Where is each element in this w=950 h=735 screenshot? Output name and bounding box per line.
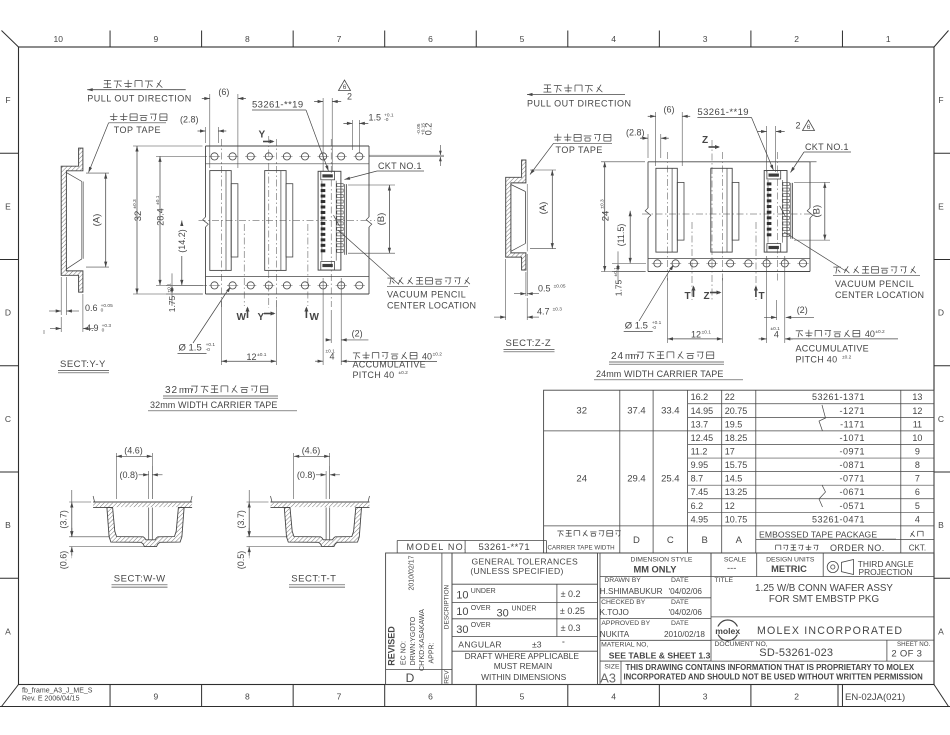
svg-text:18.25: 18.25 (725, 433, 748, 443)
right view heading 24mm WIDTH CARRIER TAPE (594, 369, 743, 380)
svg-text:F: F (5, 95, 10, 105)
svg-text:12: 12 (725, 501, 735, 511)
table header ckt cell (909, 531, 926, 553)
svg-text:3: 3 (703, 34, 708, 44)
sheet no cell (887, 640, 931, 661)
dimension style cell (600, 557, 934, 577)
top zone tick marks (110, 31, 842, 48)
svg-text:12: 12 (912, 406, 922, 416)
svg-text:(14.2): (14.2) (177, 229, 187, 253)
svg-text:DESCRIPTION: DESCRIPTION (443, 584, 450, 629)
svg-text:29.4: 29.4 (627, 473, 646, 484)
left view dimension (B) (348, 185, 395, 253)
svg-text:INCORPORATED AND SHOULD NOT BE: INCORPORATED AND SHOULD NOT BE USED WITH… (624, 672, 924, 681)
svg-text:12: 12 (247, 352, 257, 362)
svg-text:SEE TABLE & SHEET 1.3: SEE TABLE & SHEET 1.3 (609, 650, 711, 660)
general tolerances texts (456, 557, 585, 682)
svg-text:6: 6 (428, 692, 433, 702)
left zone letters F..A (5, 95, 11, 636)
svg-text:7.45: 7.45 (691, 487, 709, 497)
svg-text:10: 10 (54, 34, 64, 44)
svg-text:PULL OUT DIRECTION: PULL OUT DIRECTION (527, 99, 632, 109)
left view part number 53261-**19 leader (252, 100, 330, 172)
svg-text:K.TOJO: K.TOJO (600, 608, 629, 617)
pocket section top tape band (271, 496, 370, 508)
svg-text:MATERIAL NO,: MATERIAL NO, (601, 641, 648, 648)
left view dimension (14.2) (176, 221, 187, 286)
svg-text:6.2: 6.2 (691, 501, 704, 511)
svg-text:GENERAL TOLERANCES: GENERAL TOLERANCES (472, 557, 579, 567)
svg-text:D: D (938, 308, 944, 318)
svg-text:1.75: 1.75 (614, 279, 624, 296)
table header carrier tape width cell (548, 530, 621, 551)
svg-text:UNDER: UNDER (471, 588, 496, 595)
svg-text:(0.5): (0.5) (236, 551, 246, 570)
svg-text:-0: -0 (206, 347, 211, 353)
svg-text:2: 2 (796, 121, 801, 131)
svg-text:6: 6 (807, 124, 811, 131)
svg-text:10.75: 10.75 (725, 514, 748, 524)
svg-text:molex: molex (715, 626, 740, 636)
third angle projection cell (823, 553, 914, 577)
svg-text:-1271: -1271 (839, 406, 865, 416)
svg-text:0: 0 (101, 308, 104, 314)
right zone tick marks (934, 153, 950, 578)
svg-text:7: 7 (915, 474, 920, 484)
pocket section dimension (3.7) (236, 490, 287, 537)
pocket section center slot lines (149, 508, 153, 540)
right view wafer 1 (656, 168, 684, 252)
svg-text:TOP TAPE: TOP TAPE (556, 145, 603, 155)
pocket section dimension (3.7) (59, 490, 110, 537)
svg-text:-0971: -0971 (839, 446, 865, 456)
left view pocket centerline 1 (220, 139, 222, 307)
svg-text:(11.5): (11.5) (616, 224, 626, 247)
right view sprocket holes bottom row (652, 260, 809, 267)
svg-text:THIS DRAWING CONTAINS INFORMAT: THIS DRAWING CONTAINS INFORMATION THAT I… (626, 663, 915, 672)
svg-text:10: 10 (456, 606, 468, 618)
svg-text:A: A (736, 535, 743, 546)
right view horizontal centerline (642, 213, 815, 215)
svg-text:8.7: 8.7 (691, 474, 704, 484)
left view sprocket holes bottom row (209, 282, 365, 289)
pocket section bottom depth dimension (59, 528, 145, 569)
svg-text:NUKITA: NUKITA (600, 630, 630, 639)
svg-text:(6): (6) (218, 87, 229, 97)
svg-text:SECT:Y-Y: SECT:Y-Y (60, 359, 106, 370)
svg-text:2 OF 3: 2 OF 3 (891, 648, 922, 659)
svg-text:-0571: -0571 (839, 501, 865, 511)
svg-text:32: 32 (165, 385, 178, 396)
svg-text:(B): (B) (376, 213, 387, 226)
table header D C B A cells (633, 535, 743, 546)
svg-text:33.4: 33.4 (661, 406, 680, 417)
svg-text:±0.2: ±0.2 (875, 329, 885, 335)
svg-text:F: F (938, 95, 943, 105)
left view horizontal centerline (199, 219, 376, 221)
svg-text:30: 30 (497, 608, 509, 620)
bottom zone numbers 9..2 (153, 692, 799, 702)
svg-text:CKT.: CKT. (909, 544, 926, 553)
svg-text:APPR:: APPR: (429, 642, 436, 663)
svg-text:32: 32 (576, 406, 587, 417)
svg-text:(A): (A) (92, 214, 103, 227)
table column 24 carrier width group (576, 473, 679, 484)
svg-text:D: D (406, 671, 415, 685)
sect Z-Z tape cross-section channel (506, 160, 528, 270)
frame title fb_frame_A3_J_ME_S (22, 688, 93, 703)
right view pull-out direction arrow (527, 93, 625, 96)
right view dimension phi 1.5 with leader (624, 264, 675, 332)
corner diagonal top-left (2, 31, 19, 48)
svg-text:4.9: 4.9 (86, 323, 99, 333)
svg-text:1.25 W/B CONN WAFER ASSY: 1.25 W/B CONN WAFER ASSY (755, 583, 893, 594)
svg-text:(2): (2) (352, 328, 363, 338)
bottom margin line (0, 706, 950, 708)
right view section cut line Z-Z (711, 140, 713, 302)
svg-text:±0.1: ±0.1 (771, 326, 781, 332)
molex incorporated text (757, 625, 903, 637)
document no cell (711, 640, 934, 659)
svg-text:EC NO:: EC NO: (401, 641, 408, 665)
right view dimension (2.8) (626, 128, 669, 159)
svg-text:(B): (B) (812, 205, 823, 218)
svg-text:-1171: -1171 (840, 419, 865, 429)
left view connector 53261 13ckt in pocket (318, 171, 346, 270)
svg-text:OVER: OVER (471, 622, 491, 629)
svg-text:DESIGN UNITS: DESIGN UNITS (766, 557, 815, 564)
svg-text:4: 4 (611, 692, 616, 702)
right view dimension (2) (764, 305, 814, 319)
svg-text:2: 2 (347, 92, 352, 102)
right view pocket centerline 2 (721, 152, 723, 283)
svg-text:19.5: 19.5 (725, 419, 743, 429)
svg-text:14.95: 14.95 (691, 406, 714, 416)
svg-text:W: W (237, 312, 247, 323)
svg-text:10: 10 (456, 589, 468, 601)
svg-text:24mm WIDTH CARRIER TAPE: 24mm WIDTH CARRIER TAPE (596, 369, 723, 379)
right view dimension (6) (648, 105, 691, 167)
svg-text:MUST REMAIN: MUST REMAIN (494, 661, 552, 671)
svg-text:±0.3: ±0.3 (553, 306, 563, 312)
svg-text:CARRIER TAPE WIDTH: CARRIER TAPE WIDTH (548, 545, 615, 552)
left view heading 32mm WIDTH CARRIER TAPE (148, 400, 297, 411)
svg-text:± 0.2: ± 0.2 (561, 589, 581, 599)
svg-text:---: --- (727, 563, 736, 573)
svg-text:9: 9 (915, 446, 920, 456)
svg-text:E: E (5, 201, 11, 211)
svg-text:12.45: 12.45 (691, 433, 714, 443)
right view dimension 24 +-0.3 (600, 162, 645, 272)
svg-text:7: 7 (337, 692, 342, 702)
svg-text:-0: -0 (384, 117, 389, 123)
svg-text:25.4: 25.4 (661, 473, 680, 484)
svg-text:±0.2: ±0.2 (842, 355, 852, 361)
svg-text:1: 1 (886, 34, 891, 44)
left view wafer 2 (265, 171, 293, 271)
svg-text:WITHIN DIMENSIONS: WITHIN DIMENSIONS (481, 672, 567, 682)
pocket section dimension (4.6) (294, 445, 330, 499)
svg-text:EMBOSSED TAPE PACKAGE: EMBOSSED TAPE PACKAGE (759, 530, 877, 540)
sect Y-Y dimension (A) (86, 173, 109, 267)
svg-text:W: W (310, 312, 320, 323)
svg-text:-0: -0 (652, 325, 657, 331)
left view heading 32mm carrier tape JP (163, 385, 278, 398)
left view label hikidashi-houkou (pull out direction JP) (103, 80, 162, 88)
svg-text:8: 8 (915, 460, 920, 470)
left view sprocket holes top row (209, 153, 365, 160)
left view dimension (6) pocket width (202, 87, 246, 168)
svg-text:CHECKED BY: CHECKED BY (601, 599, 646, 606)
svg-text:53261-**19: 53261-**19 (252, 100, 304, 111)
svg-text:53261-**71: 53261-**71 (479, 542, 531, 553)
top zone numbers 10..1 (54, 34, 891, 44)
left view carrier tape outline 32mm (203, 146, 372, 294)
corner diagonal top-right (934, 31, 949, 48)
svg-text:±3: ±3 (532, 640, 542, 650)
svg-text:±0.1: ±0.1 (613, 267, 619, 277)
svg-text:C: C (938, 414, 944, 424)
approved by cell (600, 620, 711, 640)
svg-text:MOLEX INCORPORATED: MOLEX INCORPORATED (757, 625, 903, 637)
svg-text:6: 6 (343, 84, 347, 91)
sect Z-Z dimension 4.7 +-0.3 (494, 259, 562, 320)
svg-text:± 0.25: ± 0.25 (560, 606, 585, 616)
svg-text:ANGULAR: ANGULAR (458, 640, 502, 650)
pocket section center slot lines (326, 508, 330, 540)
svg-text:TOP TAPE: TOP TAPE (114, 125, 161, 135)
svg-text:1.5: 1.5 (369, 113, 382, 123)
right view dimension 4 +-0.1 (759, 326, 793, 341)
left view dimension (2.8) (180, 115, 226, 144)
right view label TOP TAPE with leader (529, 143, 612, 175)
svg-text:Y: Y (258, 312, 265, 323)
bottom zone tick marks (110, 685, 842, 707)
left view label TOP TAPE with leader (87, 123, 166, 173)
molex logo (711, 617, 934, 641)
svg-text:fb_frame_A3_J_ME_S: fb_frame_A3_J_ME_S (22, 688, 93, 695)
svg-text:PULL OUT DIRECTION: PULL OUT DIRECTION (87, 94, 192, 104)
svg-text:DRAFT WHERE APPLICABLE: DRAFT WHERE APPLICABLE (465, 651, 580, 661)
pocket section embossed cavity walls (107, 508, 184, 547)
svg-text:DATE: DATE (671, 599, 689, 606)
right view dimension 2 with revision triangle 6 (758, 120, 815, 172)
svg-text:5: 5 (915, 501, 920, 511)
svg-text:24: 24 (576, 473, 587, 484)
svg-text:CENTER LOCATION: CENTER LOCATION (387, 301, 476, 311)
svg-text:32: 32 (133, 211, 144, 222)
corner diagonal bottom-right (934, 685, 949, 707)
svg-text:T: T (759, 291, 765, 302)
svg-text:SECT:Z-Z: SECT:Z-Z (506, 338, 552, 349)
svg-text:±0.2: ±0.2 (399, 370, 409, 376)
svg-text:(0.8): (0.8) (297, 470, 316, 480)
svg-text:Z: Z (704, 291, 710, 302)
general tolerances box (452, 553, 598, 685)
svg-text:12: 12 (691, 330, 701, 340)
svg-text:0.5: 0.5 (538, 283, 551, 293)
svg-text:30: 30 (456, 624, 468, 636)
right view label CKT NO.1 with leader (789, 142, 851, 173)
svg-text:B: B (5, 520, 11, 530)
table header embossed tape package / order no (759, 530, 896, 554)
svg-text:SECT:T-T: SECT:T-T (291, 574, 336, 585)
model no strip (397, 541, 546, 554)
svg-text:'04/02/06: '04/02/06 (669, 587, 703, 596)
left view label PULL OUT DIRECTION (87, 94, 192, 104)
svg-text:REV: REV (443, 670, 450, 684)
svg-text:7: 7 (337, 34, 342, 44)
right view vacuum pencil center location label (784, 232, 924, 300)
left view section marker Y top (259, 130, 275, 144)
svg-text:OVER: OVER (471, 605, 491, 612)
right view pocket centerline 3 (776, 152, 778, 283)
svg-text:±0.1: ±0.1 (167, 283, 173, 293)
svg-text:±0.3: ±0.3 (600, 199, 606, 209)
svg-text:ORDER NO.: ORDER NO. (830, 543, 885, 553)
left view dimension 12 +-0.1 (221, 352, 276, 363)
pocket section dimension (0.8) (120, 466, 163, 499)
svg-text:FOR SMT EMBSTP PKG: FOR SMT EMBSTP PKG (769, 594, 879, 605)
svg-text:Ø 1.5: Ø 1.5 (625, 321, 648, 332)
left view dimension (2) (326, 328, 369, 341)
svg-text:Rev. E 2006/04/15: Rev. E 2006/04/15 (22, 696, 80, 703)
svg-text:D: D (633, 535, 640, 546)
sect Y-Y dimension 4.9 +0.3 (44, 294, 111, 334)
right view section marker Z top (702, 135, 720, 149)
svg-text:(UNLESS SPECIFIED): (UNLESS SPECIFIED) (470, 566, 563, 576)
left view section cut line Y-Y (268, 136, 270, 308)
svg-text:ACCUMULATIVE: ACCUMULATIVE (353, 359, 426, 369)
left view extension lines below tape (221, 278, 341, 365)
svg-text:ACCUMULATIVE: ACCUMULATIVE (796, 343, 869, 353)
svg-text:EN-02JA(021): EN-02JA(021) (845, 692, 905, 703)
left view dimension 32 +-0.3 (132, 146, 202, 294)
svg-text:m: m (631, 351, 639, 361)
right view dimension (B) (794, 182, 830, 240)
svg-text:METRIC: METRIC (771, 564, 807, 574)
svg-text:0.6: 0.6 (85, 303, 98, 313)
right view dimension (11.5) (615, 211, 632, 264)
left view label top-tape JP (110, 113, 167, 121)
svg-text:(4.6): (4.6) (302, 445, 321, 455)
left view label CKT NO.1 with leader (344, 161, 424, 181)
right view wafer 2 (711, 168, 739, 252)
svg-text:D: D (5, 308, 11, 318)
svg-text:0: 0 (102, 328, 105, 334)
right view label PULL OUT DIRECTION (527, 99, 632, 109)
svg-text:14.5: 14.5 (725, 474, 743, 484)
left view dimension 1.5 +0.1/-0 (343, 112, 394, 152)
table order column break marks (819, 405, 826, 507)
right view part number 53261-**19 leader (697, 107, 775, 171)
svg-text:32mm WIDTH CARRIER TAPE: 32mm WIDTH CARRIER TAPE (150, 400, 277, 410)
svg-text:DRWN:YGOTO: DRWN:YGOTO (410, 616, 417, 665)
left view dimension 28.4 +-0.1 (155, 156, 207, 285)
pocket section top tape band (93, 496, 192, 508)
drawn by cell (600, 577, 711, 598)
svg-text:5: 5 (520, 34, 525, 44)
sect Y-Y tape cross-section channel (61, 148, 83, 292)
pocket section embossed cavity walls (284, 508, 361, 547)
proprietary notice (600, 661, 934, 681)
revision block outline (386, 553, 452, 685)
svg-text:(2): (2) (797, 305, 808, 315)
svg-text:C: C (667, 535, 674, 546)
left view vacuum pencil center location label (338, 230, 476, 311)
svg-text:°: ° (562, 640, 565, 648)
svg-text:2: 2 (794, 692, 799, 702)
right view accumulative pitch 40 +-0.2 label (790, 329, 898, 364)
svg-text:-0871: -0871 (839, 460, 865, 470)
svg-text:Y: Y (259, 130, 266, 141)
svg-text:28.4: 28.4 (156, 208, 166, 226)
right view label top tape JP (554, 134, 611, 142)
section W-W title (112, 574, 168, 588)
svg-text:(2.8): (2.8) (180, 115, 199, 125)
sect Z-Z dimension (A) (530, 170, 556, 249)
svg-text:16.2: 16.2 (691, 392, 709, 402)
svg-text:15.75: 15.75 (725, 460, 748, 470)
svg-text:9: 9 (153, 34, 158, 44)
left zone tick marks (0, 153, 19, 578)
svg-text:REVISED: REVISED (387, 626, 397, 666)
left view pocket centerline 2 (275, 139, 277, 307)
svg-text:±0.3: ±0.3 (132, 199, 138, 209)
svg-text:(3.7): (3.7) (59, 510, 69, 529)
svg-text:DRAWN BY: DRAWN BY (604, 577, 641, 584)
svg-text:A3: A3 (600, 671, 616, 686)
corner diagonal bottom-left (2, 685, 19, 707)
svg-text:53261-1371: 53261-1371 (812, 392, 865, 402)
svg-text:9: 9 (153, 692, 158, 702)
svg-text:53261-0471: 53261-0471 (812, 514, 865, 524)
svg-text:22: 22 (725, 392, 735, 402)
svg-text:DATE: DATE (671, 620, 689, 627)
svg-text:MM ONLY: MM ONLY (633, 564, 677, 574)
svg-text:DIMENSION STYLE: DIMENSION STYLE (631, 557, 693, 564)
svg-text:(A): (A) (538, 202, 549, 215)
svg-text:5: 5 (520, 692, 525, 702)
right zone letters F..A (938, 95, 944, 636)
right view dimension 1.75 +-0.1 (612, 251, 646, 296)
design units cell (757, 553, 815, 577)
right view section markers T and Z bottom (685, 286, 765, 303)
svg-text:PITCH 40: PITCH 40 (353, 370, 395, 380)
svg-text:2010/02/18: 2010/02/18 (664, 630, 705, 639)
pocket section dimension (0.8) (297, 466, 340, 499)
svg-text:±0.1: ±0.1 (155, 195, 161, 205)
svg-text:B: B (701, 535, 707, 546)
sect Z-Z title (504, 338, 555, 352)
svg-text:CH'KD:KASAKAWA: CH'KD:KASAKAWA (419, 609, 426, 671)
svg-text:CENTER LOCATION: CENTER LOCATION (835, 290, 924, 300)
order number table grid (544, 390, 934, 553)
svg-text:11.2: 11.2 (691, 446, 708, 456)
svg-text:CKT NO.1: CKT NO.1 (805, 142, 849, 152)
svg-text:11: 11 (913, 419, 922, 429)
pocket section bottom depth dimension (236, 528, 322, 569)
svg-text:DATE: DATE (671, 577, 689, 584)
table column 32 carrier width group (576, 406, 679, 417)
section T-T pocket profile (0, 0, 1, 1)
svg-text:±0.1: ±0.1 (257, 352, 267, 358)
left view dimension 2 with revision triangle 6 (314, 80, 352, 171)
svg-text:'04/02/06: '04/02/06 (669, 608, 703, 617)
right view dimension 12 +-0.1 (668, 330, 723, 341)
scale cell (711, 553, 747, 577)
svg-text:-0671: -0671 (839, 487, 865, 497)
